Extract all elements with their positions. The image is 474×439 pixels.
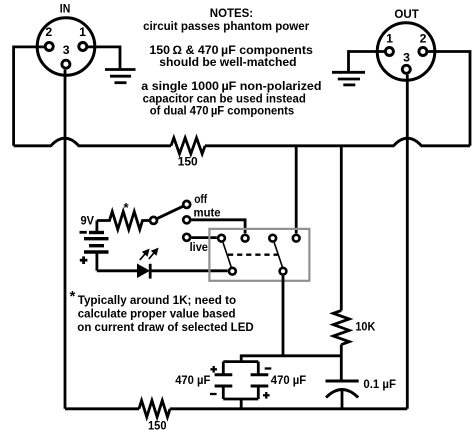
svg-text:1: 1 — [386, 32, 393, 46]
wire mute to DPDT T2 — [191, 220, 245, 234]
svg-text:470 µF: 470 µF — [271, 373, 307, 387]
svg-text:10K: 10K — [355, 319, 375, 333]
wire junction to DPDT terminal T4 — [295, 146, 298, 234]
svg-text:3: 3 — [63, 43, 70, 57]
XLR connector OUT — [377, 7, 435, 81]
svg-text:0.1 µF: 0.1 µF — [363, 377, 396, 391]
svg-text:3: 3 — [403, 50, 410, 64]
ground (near OUT) — [332, 72, 365, 85]
DPDT terminal T1 — [218, 235, 225, 242]
wire OUT pin1 to ground — [349, 52, 385, 73]
svg-text:of dual 470 µF components: of dual 470 µF components — [150, 104, 295, 118]
wire junction down to 10K — [340, 146, 343, 311]
svg-text:2: 2 — [45, 25, 52, 39]
svg-text:9V: 9V — [81, 213, 95, 227]
DPDT terminal T3 — [269, 235, 276, 242]
node live — [183, 234, 190, 241]
wire OUT pin2 right and down to top rail — [428, 52, 470, 146]
wire DPDT B2 down to node line — [282, 276, 285, 356]
svg-text:150: 150 — [178, 154, 198, 168]
battery 9V — [80, 213, 109, 270]
svg-text:470 µF: 470 µF — [175, 373, 211, 387]
svg-text:1: 1 — [79, 25, 86, 39]
wire OUT pin3 down to bottom rail — [406, 75, 409, 409]
wire IN pin1 to ground — [88, 47, 120, 70]
wire IN pin2 to left edge and down to top rail — [14, 47, 44, 146]
wire bottom rail — [65, 407, 139, 410]
resistor 150 (bottom) — [139, 401, 170, 433]
svg-text:live: live — [190, 240, 208, 254]
svg-text:on current draw of selected LE: on current draw of selected LED — [77, 320, 254, 334]
switch DPDT (gray box) — [209, 229, 309, 281]
capacitor C1 470uF (left) — [175, 362, 232, 399]
svg-text:should be well-matched: should be well-matched — [159, 55, 296, 69]
ground (near IN) — [105, 70, 136, 83]
DPDT mechanical link (dashed) — [228, 253, 279, 255]
DPDT lever 1 — [223, 243, 231, 268]
resistor 150 (top) — [171, 138, 205, 169]
capacitor C3 0.1uF — [326, 377, 397, 409]
svg-text:circuit passes phantom power: circuit passes phantom power — [143, 19, 309, 33]
notes text — [141, 6, 321, 118]
DPDT terminal T4 — [293, 235, 300, 242]
wire live to DPDT T1 — [191, 236, 217, 239]
capacitor C2 470uF (right) — [251, 362, 307, 399]
svg-text:off: off — [194, 192, 208, 206]
XLR connector IN — [37, 1, 95, 75]
wire cap pair brackets — [223, 360, 258, 363]
svg-text:IN: IN — [60, 1, 71, 15]
svg-text:*: * — [70, 288, 76, 305]
wire node line to caps — [241, 356, 341, 362]
wire 10K to node junction — [340, 345, 343, 382]
svg-text:NOTES:: NOTES: — [210, 6, 253, 20]
DPDT terminal B2 — [280, 268, 287, 275]
node mute — [183, 216, 190, 223]
svg-text:OUT: OUT — [394, 7, 419, 21]
wire top rail with hops over two verticals — [14, 138, 171, 146]
DPDT terminal B1 — [229, 268, 236, 275]
resistor R* (LED limiter) — [97, 200, 149, 230]
DPDT terminal T2 — [242, 235, 249, 242]
resistor 10K — [333, 311, 375, 345]
wire IN pin3 down to bottom rail — [64, 70, 67, 409]
svg-text:150: 150 — [148, 418, 167, 432]
note text (asterisk note) — [70, 288, 255, 334]
svg-text:mute: mute — [194, 206, 221, 220]
svg-text:Typically around 1K; need to: Typically around 1K; need to — [78, 293, 236, 307]
svg-text:calculate proper value based: calculate proper value based — [78, 307, 236, 321]
node off — [183, 201, 190, 208]
DPDT lever 2 — [274, 243, 282, 268]
switch SW1 pole and lever — [150, 206, 183, 224]
LED D1 — [97, 249, 228, 279]
svg-text:2: 2 — [420, 32, 427, 46]
